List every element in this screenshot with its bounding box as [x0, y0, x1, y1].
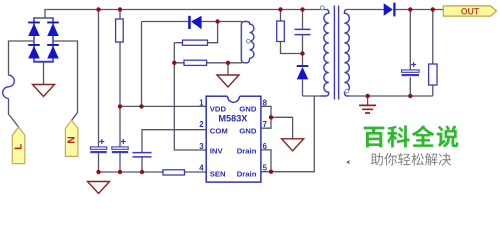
- wire aux left edge: [241, 22, 244, 63]
- junction node 4: [300, 7, 304, 11]
- junction node 15: [140, 170, 144, 174]
- capacitor C2: [112, 139, 128, 153]
- junction node 18: [365, 94, 369, 98]
- junction node 19: [408, 94, 412, 98]
- svg-text:GND: GND: [239, 126, 257, 135]
- wire DC+ top rail: [45, 10, 327, 19]
- wire R3 leads: [174, 62, 242, 64]
- junction node 17: [431, 7, 435, 11]
- fuse F1: [3, 75, 15, 98]
- svg-text:3: 3: [199, 142, 204, 151]
- wire C5 legs: [409, 10, 411, 97]
- wire R6 legs: [432, 10, 434, 97]
- junction node 14: [118, 170, 122, 174]
- svg-text:N: N: [66, 136, 77, 143]
- junction node 11: [269, 115, 273, 119]
- wire INV rail: [174, 43, 206, 150]
- wire earth stub: [367, 96, 369, 105]
- junction node 6: [172, 61, 176, 65]
- wire VDD rail down: [141, 22, 143, 107]
- wire N line to bridge: [53, 41, 78, 120]
- terminal N: [65, 120, 78, 156]
- wire fuse to L terminal: [9, 98, 19, 127]
- bridge bottom bar: [33, 61, 54, 63]
- ground bulk caps: [88, 182, 110, 194]
- wire bridge right column: [52, 18, 54, 62]
- transformer T1 core: [334, 6, 338, 100]
- svg-text:1: 1: [199, 98, 204, 107]
- capacitor C4 snubber: [295, 29, 311, 34]
- bridge top bar: [33, 17, 54, 19]
- wire gnd from pins 8-7: [271, 117, 293, 139]
- U1 notch: [227, 95, 239, 102]
- junction node 8: [118, 104, 122, 108]
- junction node 2: [118, 7, 122, 11]
- wire pin8-pin7 tie: [261, 106, 271, 128]
- watermark subtitle 助你轻松解决: [371, 153, 451, 166]
- wire R4 bottom leg: [281, 42, 303, 54]
- wire R2 leads: [174, 22, 217, 43]
- resistor R2: [183, 40, 208, 45]
- junction node 13: [96, 170, 100, 174]
- wire VDD line: [142, 21, 243, 23]
- wire C4 legs: [302, 10, 304, 54]
- svg-text:COM: COM: [210, 126, 228, 135]
- diode D4 bridge bottom-right: [47, 44, 59, 59]
- svg-text:Drain: Drain: [237, 169, 257, 178]
- capacitor C5 output: [402, 62, 420, 76]
- watermark title 百科全说: [364, 125, 459, 147]
- diode D2 bridge top-right: [47, 22, 59, 37]
- wire cap C3 bottom leg: [141, 158, 143, 173]
- junction node 1: [96, 7, 100, 11]
- wire bottom rail: [99, 171, 207, 173]
- svg-text:4: 4: [199, 164, 204, 173]
- resistor R3: [184, 60, 207, 65]
- wire secondary top: [346, 9, 443, 11]
- wire R4 top leg: [280, 10, 282, 22]
- ground aux winding: [217, 75, 239, 87]
- junction node 12: [269, 170, 273, 174]
- wire cap C2 leg: [119, 10, 121, 173]
- junction node 9: [139, 104, 143, 108]
- inductor L-aux winding: [241, 22, 254, 63]
- T1 primary polarity mark: [320, 6, 324, 10]
- svg-text:VDD: VDD: [210, 105, 227, 114]
- diode D6 snubber: [297, 65, 309, 79]
- flag OUT: [443, 6, 496, 17]
- resistor R5 sense: [163, 170, 185, 175]
- svg-text:SEN: SEN: [210, 169, 226, 178]
- svg-text:M583X: M583X: [218, 114, 248, 124]
- svg-text:L: L: [13, 143, 24, 149]
- diode D5 startup: [188, 16, 201, 30]
- svg-text:GND: GND: [239, 105, 257, 114]
- capacitor C1: [90, 139, 106, 153]
- junction node 10: [300, 51, 304, 55]
- diode D3 bridge bottom-left: [28, 44, 40, 59]
- T1 secondary polarity mark: [345, 89, 349, 93]
- transformer T1 secondary winding: [344, 10, 349, 97]
- wire bridge output stub: [43, 63, 45, 85]
- junction node 7: [226, 61, 230, 65]
- svg-text:2: 2: [199, 120, 204, 129]
- svg-text:OUT: OUT: [461, 6, 480, 16]
- junction node 16: [408, 7, 412, 11]
- wire pin6-pin5 tie: [261, 150, 271, 172]
- ground bridge: [33, 85, 55, 97]
- svg-text:Drain: Drain: [237, 147, 257, 156]
- resistor R1: [116, 19, 124, 42]
- wire drain net: [271, 96, 321, 172]
- watermark red mark: [346, 160, 350, 164]
- wire bridge left column: [33, 18, 35, 62]
- ground IC: [282, 139, 304, 151]
- wire COM pin2 and cap C3 leg: [142, 130, 206, 152]
- junction node 5: [215, 19, 219, 23]
- op-amp U1 M583X body: [206, 96, 261, 182]
- wire cap C1 leg: [98, 10, 100, 173]
- resistor R4 snubber: [277, 21, 285, 42]
- junction node 3: [278, 7, 282, 11]
- terminal L: [12, 127, 24, 164]
- aux polarity mark: [247, 39, 251, 43]
- wire VDD to pin1: [120, 105, 206, 107]
- capacitor C3: [133, 153, 152, 157]
- earth ground secondary: [359, 105, 376, 113]
- wire aux gnd stub: [227, 63, 229, 75]
- svg-text:INV: INV: [210, 147, 224, 156]
- diode D7 output: [384, 3, 396, 17]
- transformer T1 primary winding: [321, 10, 329, 97]
- diode D1 bridge top-left: [28, 22, 40, 37]
- wire D6 legs: [302, 54, 304, 97]
- wire secondary bottom: [349, 95, 433, 97]
- wire L line to bridge: [9, 41, 35, 75]
- resistor R6 load: [429, 64, 437, 85]
